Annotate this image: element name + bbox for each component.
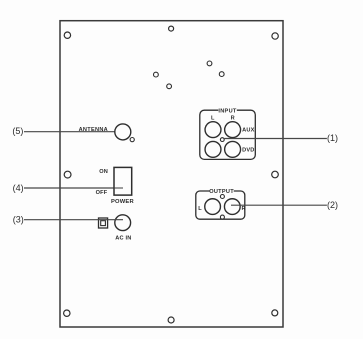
svg-text:ANTENNA: ANTENNA (79, 127, 108, 133)
RCA jack input L top (205, 122, 221, 138)
leader line (4) to power switch (24, 187, 123, 189)
screw hole top-left (64, 32, 70, 38)
svg-text:R: R (241, 206, 245, 212)
leader line (3) to AC IN (24, 219, 123, 221)
svg-text:(3): (3) (13, 215, 24, 225)
svg-text:(4): (4) (13, 183, 24, 193)
screw hole middle-left (64, 171, 71, 178)
RCA jack input R top (AUX) (225, 122, 241, 138)
svg-text:L: L (198, 206, 202, 212)
power switch (114, 167, 132, 195)
screw hole bottom-center (168, 317, 174, 323)
fuse holder inner square (101, 221, 106, 226)
svg-text:(5): (5) (12, 126, 23, 136)
screw hole bottom-right (272, 310, 278, 316)
output top screw hole (220, 195, 224, 199)
OUTPUT group box (196, 191, 245, 219)
RCA jack output L (205, 199, 221, 215)
INPUT group box (200, 110, 256, 159)
output bottom screw hole (220, 215, 224, 219)
svg-text:ON: ON (99, 169, 108, 175)
small vent hole D (219, 72, 224, 77)
RCA jack input L bottom (205, 141, 221, 157)
input center screw hole (220, 138, 224, 142)
small vent hole A (154, 72, 159, 77)
fuse holder outer square (99, 218, 108, 228)
antenna small hole (130, 138, 134, 142)
svg-text:(2): (2) (327, 200, 338, 210)
small vent hole C (207, 61, 212, 66)
gap in box border for INPUT label (218, 108, 237, 113)
AC IN socket circle (115, 215, 131, 231)
screw hole middle-right (272, 171, 279, 178)
svg-text:DVD: DVD (242, 148, 254, 154)
svg-text:INPUT: INPUT (218, 108, 237, 114)
svg-text:AC IN: AC IN (115, 236, 131, 242)
leader line (2) from output (231, 204, 327, 206)
leader line (1) from input (224, 138, 327, 140)
svg-text:(1): (1) (327, 133, 338, 143)
svg-text:AUX: AUX (242, 128, 254, 134)
svg-text:R: R (231, 116, 235, 122)
gap in box border for OUTPUT label (210, 188, 234, 193)
small vent hole B (167, 84, 172, 89)
screw hole bottom-left (64, 310, 70, 316)
svg-text:L: L (211, 116, 215, 122)
screw hole top-right (272, 33, 278, 39)
RCA jack input R bottom (DVD) (225, 141, 241, 157)
screw hole top-center (169, 26, 174, 31)
leader line (5) to antenna (24, 131, 115, 133)
svg-text:OFF: OFF (96, 190, 108, 196)
antenna connector (115, 124, 131, 140)
svg-text:POWER: POWER (111, 199, 135, 205)
rear panel outline (60, 21, 283, 327)
RCA jack output R (224, 199, 240, 215)
power switch lever line (114, 187, 123, 189)
